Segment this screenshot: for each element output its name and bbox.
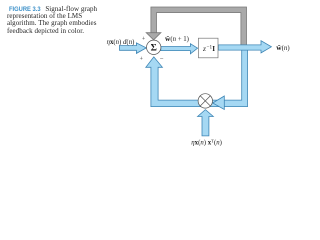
wire: arrow from summer output w(n+1) into delay box [161, 44, 198, 54]
arrowhead: gray feedback entering summer top (+ input) [146, 33, 161, 40]
wire: input arrow eta*x(n)d(n) into summer left (+ input) [120, 43, 147, 54]
delay element z^-1 I (unit-delay box) [198, 38, 218, 58]
svg-text:+: + [140, 57, 144, 63]
svg-text:−: − [160, 55, 164, 62]
arrowhead: blue w(n) signal entering multiplier right side [213, 96, 225, 110]
svg-text:I: I [212, 45, 215, 53]
multiplier node (circle with X) [198, 94, 212, 108]
svg-text:Σ: Σ [151, 44, 157, 54]
wire: gray unit-delay feedback loop, from node w(n) junction up over the top and down into summer [151, 7, 247, 46]
svg-text:ŵ(n + 1): ŵ(n + 1) [165, 34, 189, 43]
wire: output line from delay box to w(n) output arrow [218, 41, 271, 53]
svg-text:z: z [202, 44, 206, 53]
svg-text:+: + [142, 36, 146, 42]
svg-text:ŵ(n): ŵ(n) [276, 43, 289, 52]
svg-text:ηx(n) d(n): ηx(n) d(n) [107, 39, 135, 46]
figure caption [7, 6, 107, 36]
summer node (sigma adder) [147, 40, 161, 54]
svg-text:ηx(n) xT(n): ηx(n) xT(n) [191, 139, 222, 147]
wire: blue error-feedback path, w(n) junction down, along bottom, through multiplier, up into summer bottom (arrowhead included) [146, 50, 248, 107]
wire: input arrow eta*x(n)x^T(n) up into multiplier bottom [198, 110, 214, 136]
